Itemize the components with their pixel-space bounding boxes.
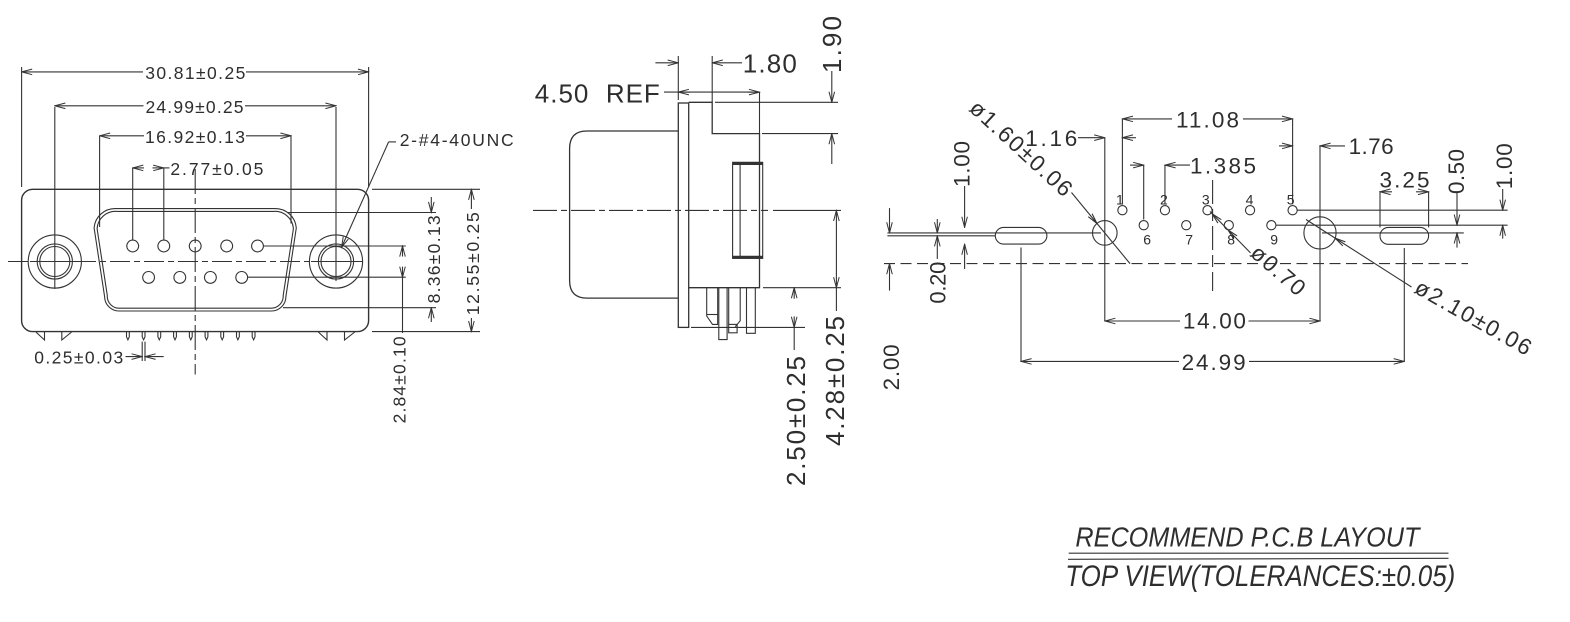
svg-text:30.81±0.25: 30.81±0.25 xyxy=(145,63,245,83)
svg-text:8: 8 xyxy=(1227,231,1235,247)
svg-text:9: 9 xyxy=(1270,231,1278,247)
svg-text:4: 4 xyxy=(1246,192,1254,208)
svg-text:16.92±0.13: 16.92±0.13 xyxy=(145,127,245,147)
svg-text:1.00: 1.00 xyxy=(1492,143,1517,189)
svg-text:0.50: 0.50 xyxy=(1444,149,1469,194)
svg-text:2.50±0.25: 2.50±0.25 xyxy=(781,356,811,486)
svg-text:1.385: 1.385 xyxy=(1190,153,1256,178)
svg-text:2.84±0.10: 2.84±0.10 xyxy=(390,336,410,423)
svg-text:4.28±0.25: 4.28±0.25 xyxy=(820,316,850,446)
svg-text:3.25: 3.25 xyxy=(1380,168,1430,193)
svg-text:6: 6 xyxy=(1143,231,1151,247)
svg-text:24.99±0.25: 24.99±0.25 xyxy=(146,97,244,117)
svg-text:0.25±0.03: 0.25±0.03 xyxy=(34,347,123,367)
svg-text:ø2.10±0.06: ø2.10±0.06 xyxy=(1411,275,1536,361)
svg-text:12.55±0.25: 12.55±0.25 xyxy=(463,212,483,315)
svg-text:14.00: 14.00 xyxy=(1183,309,1246,334)
svg-text:7: 7 xyxy=(1185,231,1193,247)
svg-text:4.50 REF: 4.50 REF xyxy=(535,78,660,108)
svg-text:11.08: 11.08 xyxy=(1176,107,1239,132)
svg-text:2-#4-40UNC: 2-#4-40UNC xyxy=(400,130,514,150)
svg-text:24.99: 24.99 xyxy=(1182,350,1246,375)
svg-text:TOP VIEW(TOLERANCES:±0.05): TOP VIEW(TOLERANCES:±0.05) xyxy=(1065,560,1455,593)
svg-text:0.20: 0.20 xyxy=(925,262,950,304)
svg-text:1.80: 1.80 xyxy=(743,49,797,79)
svg-text:1: 1 xyxy=(1116,192,1124,208)
svg-text:2: 2 xyxy=(1160,192,1168,208)
svg-text:1.90: 1.90 xyxy=(817,16,847,73)
svg-text:ø0.70: ø0.70 xyxy=(1246,240,1311,301)
svg-text:RECOMMEND P.C.B LAYOUT: RECOMMEND P.C.B LAYOUT xyxy=(1075,522,1421,553)
svg-text:3: 3 xyxy=(1202,192,1210,208)
svg-text:8.36±0.13: 8.36±0.13 xyxy=(424,215,444,303)
svg-text:1.76: 1.76 xyxy=(1349,134,1394,159)
svg-text:1.00: 1.00 xyxy=(950,141,975,187)
svg-text:2.00: 2.00 xyxy=(879,344,904,390)
svg-text:2.77±0.05: 2.77±0.05 xyxy=(170,159,263,179)
svg-text:5: 5 xyxy=(1287,192,1295,208)
